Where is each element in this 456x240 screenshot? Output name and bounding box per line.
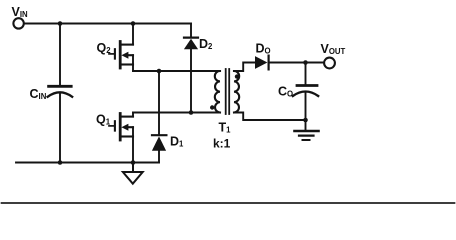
wire CIN bottom branch [59, 94, 61, 163]
transistor Q2 [109, 42, 133, 69]
svg-text:T1: T1 [219, 121, 232, 135]
transformer T1 [210, 69, 239, 114]
terminal VIN [13, 18, 23, 28]
svg-text:Q1: Q1 [96, 113, 111, 127]
svg-text:CO: CO [278, 85, 293, 99]
terminal VOUT [324, 58, 335, 69]
junction ground rail / Q1 source / ground [131, 160, 136, 165]
svg-text:DO: DO [256, 42, 271, 56]
svg-text:D2: D2 [199, 37, 213, 51]
wire Q1 drain to node B [132, 113, 134, 117]
capacitor CIN [48, 86, 73, 97]
figure bottom rule [2, 202, 455, 204]
wire top rail (VIN to D2 corner) [24, 23, 191, 25]
svg-text:D1: D1 [170, 135, 184, 149]
transistor Q1 [109, 114, 133, 141]
svg-text:k:1: k:1 [213, 137, 231, 151]
wire node A rail (Q2 source to T1 primary top) [133, 70, 220, 72]
junction top rail / CIN [58, 21, 63, 26]
wire CO bottom branch [305, 93, 307, 120]
wire T1 secondary bottom to output ground [234, 113, 306, 121]
wire CIN top branch [59, 24, 61, 86]
ground (triangle) [123, 163, 143, 184]
wire Q2 drain [132, 24, 134, 45]
ground (earth) output [295, 120, 319, 140]
wire bottom ground rail [16, 162, 159, 164]
wire node B rail (Q1 drain to T1 primary bottom) [133, 112, 220, 114]
wire T1 secondary top to DO [234, 63, 255, 72]
junction top rail / Q2 drain [131, 21, 136, 26]
junction node B / D2 [189, 110, 194, 115]
diode DO [255, 56, 269, 70]
junction VOUT node / CO [303, 60, 308, 65]
svg-text:VIN: VIN [12, 5, 29, 19]
junction output ground node [303, 118, 308, 123]
svg-text:Q2: Q2 [97, 41, 112, 55]
junction node A / D1 [157, 69, 162, 74]
junction ground rail / CIN [58, 160, 63, 165]
svg-text:VOUT: VOUT [321, 42, 346, 56]
wire DO cathode to VOUT [269, 62, 324, 64]
diode D1 [152, 71, 167, 163]
wire CO top branch [305, 63, 307, 86]
wire Q2 source to node A [132, 55, 134, 71]
diode D2 [184, 24, 198, 113]
svg-text:CIN: CIN [30, 87, 47, 101]
wire Q1 source to ground rail [132, 127, 134, 162]
capacitor CO [293, 86, 318, 97]
